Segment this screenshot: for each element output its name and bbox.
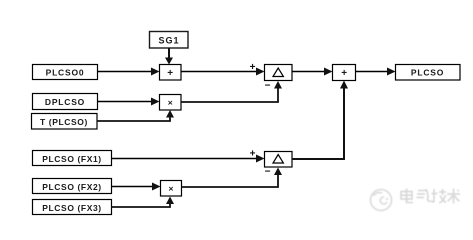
- block T(PLCSO): [32, 114, 98, 130]
- block PLCSO(FX3): [33, 200, 112, 215]
- watermark icon: [371, 190, 392, 211]
- watermark text shu: [447, 189, 460, 204]
- wire delta D1 to summer S2: [292, 68, 333, 76]
- delta D2 comparator: [265, 152, 293, 168]
- wire multiplier M1 to delta D1 bottom: [181, 81, 282, 102]
- wire T(PLCSO) to multiplier M1 bottom: [97, 110, 174, 121]
- wire PLCSO(FX3) to multiplier M2 bottom: [112, 197, 175, 208]
- summer S2 (+): [333, 65, 356, 81]
- block PLCSO(FX1): [33, 151, 112, 166]
- svg-text:DPLCSO: DPLCSO: [45, 97, 85, 107]
- wire PLCSO(FX2) to multiplier M2: [112, 183, 161, 191]
- block PLCSO(FX2): [33, 179, 112, 194]
- svg-text:PLCSO (FX3): PLCSO (FX3): [42, 203, 102, 213]
- svg-text:PLCSO (FX1): PLCSO (FX1): [42, 154, 102, 164]
- svg-text:−: −: [265, 167, 271, 178]
- watermark text ji: [431, 189, 446, 203]
- wire PLCSO0 to summer S1: [98, 68, 160, 76]
- svg-text:×: ×: [169, 184, 174, 194]
- svg-text:+: +: [250, 149, 256, 160]
- delta D1 comparator: [265, 65, 293, 81]
- svg-text:+: +: [250, 62, 256, 73]
- wire summer S2 to PLCSO output: [356, 68, 396, 76]
- svg-text:×: ×: [168, 98, 173, 108]
- wire PLCSO(FX1) to delta D2: [112, 155, 265, 163]
- block PLCSO0: [33, 65, 98, 80]
- multiplier M1 (x): [160, 95, 182, 111]
- summer S1 (+): [160, 65, 182, 81]
- svg-text:+: +: [341, 68, 347, 79]
- block PLCSO output: [396, 65, 461, 81]
- wire SG1 to summer S1: [165, 48, 173, 65]
- watermark text dian: [401, 189, 413, 203]
- wire DPLCSO to multiplier M1: [98, 98, 160, 106]
- svg-text:PLCSO: PLCSO: [411, 68, 444, 78]
- block SG1: [150, 32, 189, 49]
- block DPLCSO: [33, 94, 98, 110]
- wire multiplier M2 to delta D2 bottom: [182, 168, 283, 188]
- svg-text:SG1: SG1: [158, 36, 179, 46]
- multiplier M2 (x): [161, 181, 182, 197]
- watermark text qi: [417, 189, 431, 201]
- svg-text:T (PLCSO): T (PLCSO): [40, 117, 88, 127]
- wire delta D2 up to summer S2 bottom: [292, 81, 348, 160]
- svg-text:PLCSO (FX2): PLCSO (FX2): [42, 182, 102, 192]
- svg-text:+: +: [167, 68, 173, 79]
- svg-text:PLCSO0: PLCSO0: [46, 68, 85, 78]
- svg-text:−: −: [265, 81, 271, 92]
- wire summer S1 to delta D1: [181, 68, 265, 76]
